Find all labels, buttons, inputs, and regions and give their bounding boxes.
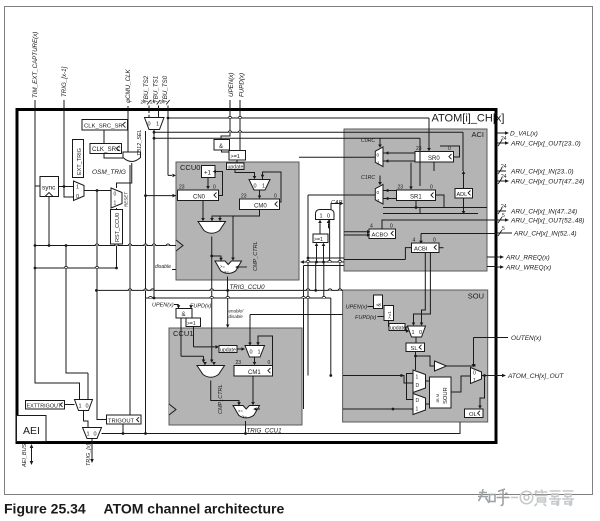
svg-text:ATOM_CH[x]_OUT: ATOM_CH[x]_OUT	[507, 373, 564, 380]
svg-text:4: 4	[413, 238, 416, 244]
svg-text:FUPD(x): FUPD(x)	[355, 315, 377, 321]
svg-text:0: 0	[250, 350, 253, 356]
svg-text:FUPD(x): FUPD(x)	[239, 73, 246, 97]
svg-text:1: 1	[258, 350, 261, 356]
svg-text:1: 1	[76, 185, 79, 191]
svg-text:1: 1	[377, 161, 380, 167]
svg-text:C1RC: C1RC	[361, 175, 375, 181]
svg-text:>=1: >=1	[387, 311, 392, 319]
svg-text:φCMU_CLK: φCMU_CLK	[125, 69, 132, 103]
svg-text:TRIG_[x]: TRIG_[x]	[86, 444, 92, 466]
svg-text:0: 0	[213, 185, 216, 191]
svg-text:disable: disable	[155, 264, 171, 270]
svg-text:C0RC: C0RC	[361, 138, 375, 144]
svg-text:>=1: >=1	[187, 321, 196, 327]
svg-text:1: 1	[114, 201, 117, 207]
svg-text:>=: >=	[242, 414, 247, 419]
svg-text:D_VAL(x): D_VAL(x)	[510, 131, 538, 138]
svg-text:0: 0	[148, 122, 151, 128]
svg-text:CCU1: CCU1	[173, 329, 193, 338]
svg-text:OL: OL	[469, 412, 478, 418]
svg-text:1: 1	[79, 404, 82, 410]
svg-text:&: &	[182, 312, 186, 318]
svg-text:SL: SL	[411, 346, 419, 352]
svg-text:4: 4	[370, 224, 373, 230]
svg-text:update: update	[220, 347, 236, 353]
svg-text:0: 0	[268, 360, 271, 366]
svg-text:ARU_WREQ(x): ARU_WREQ(x)	[505, 265, 551, 272]
svg-text:1: 1	[87, 432, 90, 438]
svg-text:0: 0	[327, 214, 330, 220]
svg-text:CLK_SRC_SR: CLK_SRC_SR	[84, 123, 123, 129]
svg-text:enable/: enable/	[229, 309, 245, 314]
svg-text:ARU_CH[x]_IN(23..0): ARU_CH[x]_IN(23..0)	[510, 169, 574, 176]
svg-text:0: 0	[390, 224, 393, 230]
svg-text:1: 1	[412, 330, 415, 336]
svg-text:>=: >=	[238, 409, 243, 414]
svg-text:ARU_CH[x]_OUT(47..24): ARU_CH[x]_OUT(47..24)	[510, 179, 584, 186]
svg-text:EXT_TRIG: EXT_TRIG	[77, 148, 83, 175]
svg-text:1: 1	[473, 378, 476, 384]
svg-text:UPEN(x): UPEN(x)	[152, 303, 174, 309]
svg-text:TRIG_CCU0: TRIG_CCU0	[230, 284, 266, 291]
svg-text:>=: >=	[224, 270, 229, 275]
svg-text:0: 0	[473, 371, 476, 377]
svg-text:23: 23	[241, 194, 247, 200]
svg-text:23: 23	[236, 360, 242, 366]
svg-text:CLK_SRC: CLK_SRC	[92, 146, 121, 153]
svg-text:0: 0	[86, 404, 89, 410]
svg-text:>=1: >=1	[231, 154, 240, 160]
svg-text:SOUR: SOUR	[443, 387, 449, 404]
svg-text:CCU0: CCU0	[180, 163, 200, 172]
svg-text:RESET: RESET	[124, 191, 129, 207]
svg-text:sync: sync	[42, 185, 56, 192]
svg-text:24: 24	[501, 174, 507, 180]
svg-text:ACBI: ACBI	[414, 247, 428, 253]
svg-text:24: 24	[501, 136, 507, 142]
svg-text:+1: +1	[204, 171, 212, 177]
svg-text:TIM_EXT_CAPTURE(x): TIM_EXT_CAPTURE(x)	[32, 32, 39, 98]
svg-text:23: 23	[179, 185, 185, 191]
svg-text:>=: >=	[220, 264, 225, 269]
svg-text:24: 24	[501, 164, 507, 170]
svg-text:0: 0	[114, 192, 117, 198]
svg-text:ARU_CH[x]_IN(47..24): ARU_CH[x]_IN(47..24)	[510, 209, 577, 216]
svg-text:TRIG_[x-1]: TRIG_[x-1]	[61, 66, 68, 97]
svg-text:0: 0	[377, 153, 380, 159]
svg-text:TBU_TS1: TBU_TS1	[153, 76, 160, 103]
svg-text:CM1: CM1	[248, 370, 261, 376]
svg-text:0: 0	[254, 184, 257, 190]
svg-text:ARU_CH[x]_OUT(23..0): ARU_CH[x]_OUT(23..0)	[510, 141, 581, 148]
svg-text:0: 0	[433, 238, 436, 244]
svg-text:ACI: ACI	[471, 130, 484, 139]
svg-text:0: 0	[419, 330, 422, 336]
svg-text:0: 0	[94, 432, 97, 438]
svg-text:SR1: SR1	[410, 194, 422, 200]
svg-text:ACBO: ACBO	[372, 233, 389, 239]
svg-text:24: 24	[501, 204, 507, 210]
svg-text:1: 1	[377, 198, 380, 204]
svg-text:OUTEN(x): OUTEN(x)	[511, 335, 541, 342]
svg-text:D: D	[416, 383, 420, 389]
svg-text:5: 5	[502, 213, 505, 219]
svg-text:AEI: AEI	[23, 425, 40, 437]
svg-text:ADL: ADL	[457, 192, 468, 198]
svg-text:>=1: >=1	[314, 237, 323, 243]
svg-text:CMP_CTRL: CMP_CTRL	[253, 241, 259, 271]
svg-text:5: 5	[502, 226, 505, 232]
svg-text:D: D	[416, 398, 420, 404]
svg-text:EXTTRIGOUT: EXTTRIGOUT	[27, 403, 62, 409]
svg-text:SOU: SOU	[468, 292, 484, 301]
svg-text:RST_CCU0: RST_CCU0	[115, 213, 121, 242]
svg-text:SR0: SR0	[428, 156, 440, 162]
svg-text:CM0: CM0	[254, 203, 267, 209]
svg-text:24: 24	[141, 100, 147, 106]
svg-text:23: 23	[398, 185, 404, 191]
svg-text:disable: disable	[229, 314, 244, 319]
svg-text:FUPD(x): FUPD(x)	[190, 304, 212, 310]
svg-text:TBU_TS0: TBU_TS0	[162, 75, 169, 103]
svg-text:UPEN(x): UPEN(x)	[346, 305, 368, 311]
svg-text:0: 0	[448, 146, 451, 152]
svg-text:Figure 25.34ATOM channel archi: Figure 25.34ATOM channel architecture	[4, 501, 284, 517]
svg-text:0: 0	[274, 194, 277, 200]
svg-text:JB M: JB M	[435, 394, 440, 403]
svg-text:1: 1	[262, 184, 265, 190]
svg-text:0: 0	[76, 194, 79, 200]
svg-text:AEI_BUS: AEI_BUS	[22, 443, 28, 468]
svg-text:CMP_CTRL: CMP_CTRL	[218, 384, 224, 414]
svg-text:OSM_TRIG: OSM_TRIG	[92, 169, 126, 176]
svg-text:TRIGOUT: TRIGOUT	[108, 418, 135, 424]
svg-text:1: 1	[416, 407, 419, 413]
svg-text:0: 0	[377, 190, 380, 196]
svg-text:TBU_TS2: TBU_TS2	[143, 75, 150, 103]
svg-text:0: 0	[430, 185, 433, 191]
svg-text:ARU_CH[x]_OUT(52..48): ARU_CH[x]_OUT(52..48)	[510, 218, 584, 225]
svg-text:23: 23	[416, 146, 422, 152]
svg-text:UPEN(x): UPEN(x)	[228, 73, 235, 97]
svg-text:CN0: CN0	[193, 194, 206, 200]
svg-text:TB12_SEL: TB12_SEL	[137, 129, 143, 156]
svg-text:&: &	[219, 144, 223, 150]
svg-text:ARU_CH[x]_IN(52..4): ARU_CH[x]_IN(52..4)	[513, 231, 577, 238]
svg-text:ATOM[i]_CH[x]: ATOM[i]_CH[x]	[432, 113, 505, 125]
svg-text:1: 1	[156, 122, 159, 128]
svg-text:ARU_RREQ(x): ARU_RREQ(x)	[505, 255, 550, 262]
svg-text:update: update	[390, 325, 406, 331]
svg-text:1: 1	[320, 214, 323, 220]
svg-text:1: 1	[416, 375, 419, 381]
